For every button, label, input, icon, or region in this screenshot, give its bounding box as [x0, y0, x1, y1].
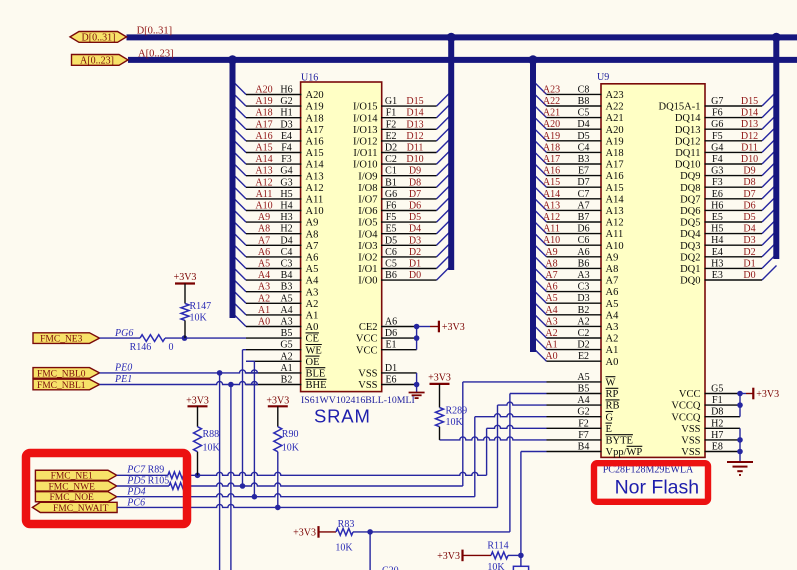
svg-text:A3: A3: [280, 317, 292, 328]
svg-text:C5: C5: [385, 259, 397, 270]
svg-text:I/O12: I/O12: [353, 137, 378, 148]
svg-text:A3: A3: [577, 270, 589, 281]
svg-text:A8: A8: [545, 258, 557, 269]
svg-text:DQ9: DQ9: [680, 171, 700, 182]
svg-text:A10: A10: [306, 206, 324, 217]
svg-text:A1: A1: [306, 311, 319, 322]
svg-text:C6: C6: [578, 235, 590, 246]
svg-text:DQ7: DQ7: [680, 194, 700, 205]
svg-text:A0: A0: [306, 322, 319, 333]
svg-text:D5: D5: [385, 235, 397, 246]
svg-text:H2: H2: [711, 418, 723, 429]
svg-text:DQ1: DQ1: [680, 264, 700, 275]
svg-text:A11: A11: [306, 195, 324, 206]
svg-text:R146: R146: [130, 342, 152, 353]
svg-text:FMC_NBL1: FMC_NBL1: [37, 381, 86, 391]
svg-text:G4: G4: [280, 166, 292, 177]
svg-text:H4: H4: [280, 201, 292, 212]
svg-text:C3: C3: [281, 259, 293, 270]
svg-text:D14: D14: [406, 108, 423, 119]
svg-text:B2: B2: [281, 375, 293, 386]
svg-text:CE: CE: [306, 334, 319, 345]
svg-text:VSS: VSS: [681, 436, 700, 447]
svg-text:C6: C6: [385, 247, 397, 258]
svg-text:C1: C1: [385, 166, 397, 177]
svg-text:A4: A4: [258, 270, 270, 281]
svg-text:+3V3: +3V3: [266, 395, 289, 406]
svg-text:A2: A2: [280, 351, 292, 362]
svg-text:A3: A3: [545, 316, 557, 327]
svg-text:I/O10: I/O10: [353, 160, 378, 171]
svg-text:A15: A15: [306, 148, 324, 159]
svg-text:Nor Flash: Nor Flash: [615, 476, 700, 498]
svg-text:I/O5: I/O5: [358, 218, 377, 229]
svg-text:A19: A19: [255, 96, 272, 107]
svg-text:D4: D4: [280, 235, 292, 246]
svg-text:H2: H2: [280, 224, 292, 235]
svg-text:A16: A16: [255, 131, 272, 142]
svg-text:PG6: PG6: [114, 328, 133, 339]
svg-text:VCCQ: VCCQ: [671, 401, 701, 412]
svg-text:SRAM: SRAM: [314, 406, 371, 427]
svg-text:A12: A12: [306, 183, 324, 194]
svg-text:A14: A14: [606, 194, 625, 205]
svg-text:G3: G3: [711, 166, 723, 177]
svg-text:H3: H3: [280, 212, 292, 223]
svg-text:A14: A14: [543, 189, 560, 200]
svg-text:B5: B5: [281, 328, 293, 339]
svg-text:A0: A0: [606, 357, 619, 368]
svg-text:H3: H3: [711, 258, 723, 269]
svg-text:A1: A1: [280, 363, 292, 374]
svg-text:VSS: VSS: [681, 424, 700, 435]
svg-text:B1: B1: [385, 177, 397, 188]
svg-text:E2: E2: [578, 351, 589, 362]
svg-text:A9: A9: [545, 247, 557, 258]
svg-text:A21: A21: [543, 108, 560, 119]
svg-text:A[0..23]: A[0..23]: [138, 49, 174, 60]
svg-text:R114: R114: [487, 540, 508, 551]
svg-text:10K: 10K: [203, 443, 221, 454]
svg-text:A18: A18: [255, 108, 272, 119]
svg-text:B3: B3: [281, 282, 293, 293]
svg-text:A0: A0: [258, 317, 270, 328]
svg-text:G6: G6: [385, 189, 397, 200]
svg-text:A20: A20: [306, 90, 324, 101]
svg-text:E: E: [606, 424, 612, 435]
svg-text:BHE: BHE: [306, 380, 327, 391]
svg-text:I/O0: I/O0: [358, 276, 377, 287]
svg-text:A14: A14: [306, 160, 325, 171]
svg-text:D1: D1: [385, 363, 397, 374]
svg-text:DQ6: DQ6: [680, 206, 700, 217]
svg-text:A18: A18: [606, 148, 624, 159]
svg-text:D9: D9: [409, 166, 421, 177]
svg-text:I/O15: I/O15: [353, 102, 378, 113]
svg-text:I/O9: I/O9: [358, 171, 377, 182]
svg-text:VCC: VCC: [356, 345, 378, 356]
svg-text:I/O11: I/O11: [353, 148, 377, 159]
svg-text:+3V3: +3V3: [174, 272, 197, 283]
svg-text:D8: D8: [743, 177, 755, 188]
svg-text:G5: G5: [280, 340, 292, 351]
svg-text:A2: A2: [545, 328, 557, 339]
svg-text:D4: D4: [743, 224, 755, 235]
svg-text:A20: A20: [606, 125, 624, 136]
svg-text:A7: A7: [306, 241, 319, 252]
svg-text:I/O6: I/O6: [358, 206, 377, 217]
svg-text:DQ14: DQ14: [675, 113, 701, 124]
svg-text:F7: F7: [578, 430, 589, 441]
svg-text:FMC_NWAIT: FMC_NWAIT: [53, 504, 109, 514]
svg-text:D2: D2: [577, 340, 589, 351]
svg-text:D11: D11: [407, 143, 424, 154]
svg-text:D[0..31]: D[0..31]: [82, 32, 116, 43]
svg-text:VSS: VSS: [681, 447, 700, 458]
svg-text:B4: B4: [281, 270, 293, 281]
svg-text:G: G: [606, 412, 614, 423]
svg-text:+3V3: +3V3: [437, 551, 460, 562]
svg-text:10K: 10K: [335, 543, 353, 554]
svg-text:D2: D2: [385, 143, 397, 154]
svg-text:PC7: PC7: [126, 464, 146, 475]
svg-text:A23: A23: [606, 90, 624, 101]
svg-text:U9: U9: [597, 72, 609, 83]
svg-text:DQ8: DQ8: [680, 183, 700, 194]
svg-text:A13: A13: [255, 166, 272, 177]
svg-text:A9: A9: [606, 252, 619, 263]
svg-text:A18: A18: [306, 113, 324, 124]
svg-text:H5: H5: [280, 189, 292, 200]
svg-text:D3: D3: [409, 235, 421, 246]
svg-text:A9: A9: [306, 218, 319, 229]
svg-text:E7: E7: [578, 166, 589, 177]
svg-text:A7: A7: [258, 235, 270, 246]
svg-text:A7: A7: [577, 200, 589, 211]
svg-text:D2: D2: [409, 247, 421, 258]
svg-text:A3: A3: [606, 322, 619, 333]
svg-text:A6: A6: [545, 282, 557, 293]
svg-text:A4: A4: [280, 305, 292, 316]
svg-text:VCC: VCC: [356, 334, 378, 345]
svg-text:A10: A10: [543, 235, 560, 246]
svg-text:A16: A16: [306, 137, 324, 148]
svg-text:A20: A20: [255, 85, 272, 96]
svg-text:CE2: CE2: [359, 322, 378, 333]
svg-text:A21: A21: [606, 113, 624, 124]
svg-text:A11: A11: [543, 224, 560, 235]
svg-text:A10: A10: [606, 241, 624, 252]
svg-text:A3: A3: [258, 282, 270, 293]
svg-text:I/O1: I/O1: [358, 264, 377, 275]
svg-text:10K: 10K: [282, 443, 300, 454]
svg-text:+3V3: +3V3: [428, 373, 451, 384]
svg-text:+3V3: +3V3: [186, 395, 209, 406]
svg-text:D2: D2: [743, 247, 755, 258]
svg-text:A5: A5: [606, 299, 619, 310]
svg-text:A2: A2: [258, 293, 270, 304]
svg-text:A2: A2: [577, 316, 589, 327]
svg-text:A14: A14: [255, 154, 272, 165]
svg-text:+3V3: +3V3: [756, 389, 779, 400]
svg-text:E5: E5: [712, 212, 723, 223]
svg-text:DQ4: DQ4: [680, 229, 701, 240]
svg-text:A7: A7: [545, 270, 557, 281]
svg-text:D1: D1: [409, 259, 421, 270]
svg-text:10K: 10K: [190, 313, 208, 324]
svg-text:DQ15A-1: DQ15A-1: [659, 102, 701, 113]
svg-text:A13: A13: [306, 171, 324, 182]
svg-text:D3: D3: [280, 119, 292, 130]
svg-text:A5: A5: [306, 264, 319, 275]
svg-text:10K: 10K: [487, 562, 505, 570]
svg-text:G7: G7: [711, 96, 723, 107]
svg-text:A4: A4: [577, 395, 589, 406]
svg-text:D8: D8: [409, 177, 421, 188]
svg-text:A8: A8: [606, 264, 619, 275]
svg-text:D6: D6: [577, 224, 589, 235]
svg-text:D1: D1: [743, 258, 755, 269]
svg-text:G4: G4: [711, 142, 723, 153]
svg-text:A4: A4: [606, 310, 620, 321]
svg-text:F4: F4: [281, 143, 292, 154]
svg-text:A2: A2: [606, 334, 619, 345]
svg-text:0: 0: [169, 342, 174, 353]
svg-text:D11: D11: [741, 142, 758, 153]
svg-text:F6: F6: [386, 201, 397, 212]
svg-text:A16: A16: [543, 166, 560, 177]
svg-text:A1: A1: [258, 305, 270, 316]
svg-text:D10: D10: [741, 154, 758, 165]
svg-text:D12: D12: [741, 131, 758, 142]
svg-text:C2: C2: [385, 154, 397, 165]
svg-text:A16: A16: [606, 171, 624, 182]
svg-text:C8: C8: [578, 84, 590, 95]
svg-text:10K: 10K: [446, 417, 464, 428]
svg-text:D4: D4: [409, 224, 421, 235]
svg-text:I/O8: I/O8: [358, 183, 377, 194]
svg-text:R89: R89: [148, 464, 165, 475]
svg-text:G2: G2: [280, 96, 292, 107]
svg-text:D5: D5: [409, 212, 421, 223]
svg-text:DQ2: DQ2: [680, 252, 700, 263]
svg-text:D6: D6: [743, 200, 755, 211]
svg-text:RP: RP: [606, 389, 619, 400]
svg-text:D10: D10: [406, 154, 423, 165]
svg-text:E6: E6: [712, 189, 723, 200]
svg-text:OE: OE: [306, 357, 320, 368]
svg-text:C20: C20: [382, 566, 399, 570]
svg-text:A13: A13: [543, 200, 560, 211]
svg-text:G1: G1: [385, 96, 397, 107]
svg-text:G2: G2: [577, 407, 589, 418]
svg-text:A5: A5: [545, 293, 557, 304]
svg-text:U16: U16: [301, 73, 318, 84]
svg-text:A11: A11: [606, 229, 624, 240]
svg-text:B4: B4: [578, 442, 590, 453]
svg-text:VCCQ: VCCQ: [671, 412, 701, 423]
svg-text:A5: A5: [280, 293, 292, 304]
svg-text:E4: E4: [281, 131, 292, 142]
svg-text:A12: A12: [606, 218, 624, 229]
svg-text:A6: A6: [385, 317, 397, 328]
svg-text:A18: A18: [543, 142, 560, 153]
svg-text:A12: A12: [255, 177, 272, 188]
svg-text:B6: B6: [578, 258, 590, 269]
svg-text:A1: A1: [545, 340, 557, 351]
svg-text:PE0: PE0: [114, 362, 132, 373]
svg-text:I/O14: I/O14: [353, 113, 378, 124]
svg-text:D0: D0: [409, 270, 421, 281]
svg-text:FMC_NE3: FMC_NE3: [40, 335, 82, 345]
svg-text:D[0..31]: D[0..31]: [137, 26, 173, 37]
svg-text:H1: H1: [280, 108, 292, 119]
svg-text:D6: D6: [385, 328, 397, 339]
svg-text:A22: A22: [606, 102, 624, 113]
svg-text:E2: E2: [385, 131, 396, 142]
svg-text:D14: D14: [741, 108, 758, 119]
svg-text:E4: E4: [712, 247, 723, 258]
svg-text:A12: A12: [543, 212, 560, 223]
svg-text:DQ10: DQ10: [675, 160, 701, 171]
svg-text:A7: A7: [606, 276, 619, 287]
svg-text:+3V3: +3V3: [442, 322, 465, 333]
svg-text:A5: A5: [258, 259, 270, 270]
svg-text:B8: B8: [578, 96, 590, 107]
svg-text:D5: D5: [577, 131, 589, 142]
svg-text:D15: D15: [406, 96, 423, 107]
svg-text:D12: D12: [406, 131, 423, 142]
svg-text:F2: F2: [578, 418, 589, 429]
svg-text:BLE: BLE: [306, 369, 326, 380]
svg-text:D5: D5: [743, 212, 755, 223]
svg-text:C4: C4: [578, 142, 590, 153]
svg-text:C2: C2: [578, 328, 590, 339]
svg-text:I/O7: I/O7: [358, 195, 377, 206]
svg-text:D7: D7: [577, 177, 589, 188]
svg-text:D8: D8: [711, 407, 723, 418]
svg-text:A4: A4: [306, 276, 320, 287]
svg-text:Vpp/WP: Vpp/WP: [606, 447, 643, 458]
svg-text:C4: C4: [281, 247, 293, 258]
svg-text:A22: A22: [543, 96, 560, 107]
svg-text:PE1: PE1: [114, 374, 132, 385]
svg-text:A20: A20: [543, 119, 560, 130]
svg-text:VCC: VCC: [679, 389, 701, 400]
svg-text:E1: E1: [385, 340, 396, 351]
svg-text:D3: D3: [743, 235, 755, 246]
svg-text:D3: D3: [577, 293, 589, 304]
svg-text:IS61WV102416BLL-10MLI: IS61WV102416BLL-10MLI: [301, 395, 415, 406]
svg-text:RB: RB: [606, 401, 620, 412]
svg-text:H4: H4: [711, 235, 723, 246]
svg-text:E6: E6: [385, 375, 396, 386]
svg-text:R289: R289: [446, 406, 468, 417]
svg-text:A8: A8: [306, 229, 319, 240]
svg-text:D13: D13: [406, 119, 423, 130]
svg-text:F2: F2: [386, 119, 397, 130]
svg-text:PD5: PD5: [126, 476, 145, 487]
svg-text:A6: A6: [577, 247, 589, 258]
svg-text:F1: F1: [386, 108, 397, 119]
svg-text:I/O2: I/O2: [358, 253, 377, 264]
svg-text:A17: A17: [306, 125, 324, 136]
svg-text:R147: R147: [190, 301, 212, 312]
svg-text:VSS: VSS: [358, 380, 377, 391]
svg-text:W: W: [606, 378, 616, 389]
svg-text:A13: A13: [606, 206, 624, 217]
svg-text:G3: G3: [280, 177, 292, 188]
svg-text:B7: B7: [578, 212, 590, 223]
svg-text:A8: A8: [258, 224, 270, 235]
svg-text:B2: B2: [578, 305, 590, 316]
svg-text:A17: A17: [543, 154, 560, 165]
svg-text:R83: R83: [338, 519, 355, 530]
svg-text:DQ3: DQ3: [680, 241, 700, 252]
svg-text:A19: A19: [306, 102, 324, 113]
svg-text:A15: A15: [606, 183, 624, 194]
svg-text:H6: H6: [280, 85, 292, 96]
svg-text:A17: A17: [606, 160, 624, 171]
svg-text:A[0..23]: A[0..23]: [80, 55, 114, 66]
svg-text:A1: A1: [606, 345, 619, 356]
svg-text:DQ11: DQ11: [675, 148, 700, 159]
svg-text:A17: A17: [255, 119, 272, 130]
svg-text:A11: A11: [256, 189, 273, 200]
svg-text:A19: A19: [606, 136, 624, 147]
svg-text:B5: B5: [578, 384, 590, 395]
svg-text:F5: F5: [386, 212, 397, 223]
svg-text:E5: E5: [385, 224, 396, 235]
svg-text:R88: R88: [203, 429, 220, 440]
svg-text:H7: H7: [711, 430, 723, 441]
svg-text:A15: A15: [543, 177, 560, 188]
svg-text:DQ5: DQ5: [680, 218, 700, 229]
svg-text:E8: E8: [712, 442, 723, 453]
svg-text:+3V3: +3V3: [293, 528, 316, 539]
svg-text:F1: F1: [712, 395, 723, 406]
svg-text:FMC_NE1: FMC_NE1: [51, 472, 93, 482]
svg-text:A6: A6: [258, 247, 270, 258]
svg-text:A19: A19: [543, 131, 560, 142]
svg-text:A10: A10: [255, 201, 272, 212]
svg-text:A23: A23: [543, 84, 560, 95]
svg-text:R105: R105: [148, 476, 170, 487]
svg-text:WE: WE: [306, 345, 322, 356]
svg-text:B6: B6: [385, 270, 397, 281]
svg-text:R90: R90: [282, 429, 299, 440]
svg-text:DQ12: DQ12: [675, 136, 701, 147]
svg-text:E3: E3: [712, 270, 723, 281]
svg-text:BYTE: BYTE: [606, 436, 633, 447]
svg-text:F3: F3: [281, 154, 292, 165]
svg-text:D9: D9: [743, 166, 755, 177]
svg-text:DQ13: DQ13: [675, 125, 701, 136]
svg-text:FMC_NWE: FMC_NWE: [48, 482, 95, 492]
svg-text:F3: F3: [712, 177, 723, 188]
svg-text:F4: F4: [712, 154, 723, 165]
svg-text:A6: A6: [606, 287, 619, 298]
svg-text:C3: C3: [578, 282, 590, 293]
svg-text:A2: A2: [306, 299, 319, 310]
svg-text:A4: A4: [545, 305, 557, 316]
svg-text:H6: H6: [711, 200, 723, 211]
svg-text:D7: D7: [409, 189, 421, 200]
svg-text:C7: C7: [578, 189, 590, 200]
svg-text:G6: G6: [711, 119, 723, 130]
svg-text:D7: D7: [743, 189, 755, 200]
svg-text:F5: F5: [712, 131, 723, 142]
